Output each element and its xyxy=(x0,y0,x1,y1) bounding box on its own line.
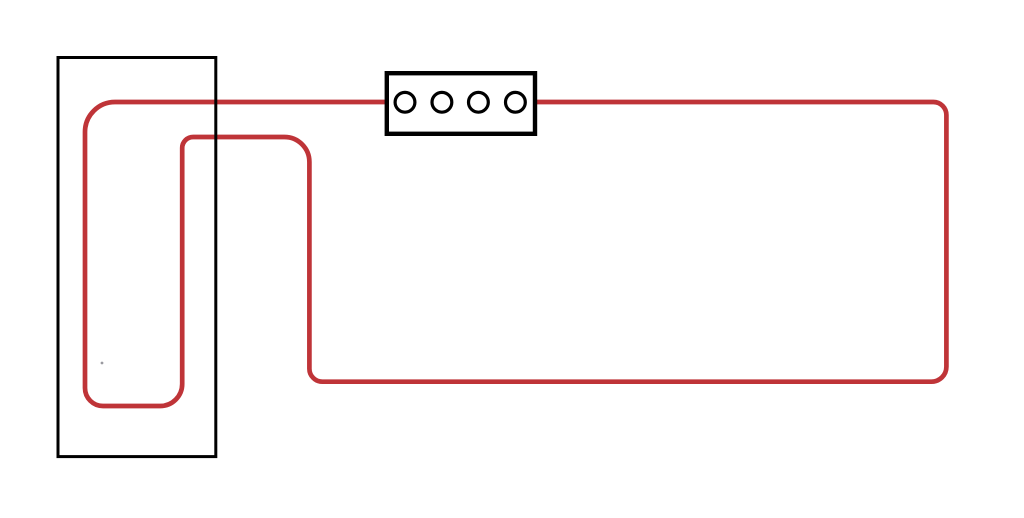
terminal 2 xyxy=(432,92,452,112)
stray mark (faint grey dot inside junction box) xyxy=(101,362,104,365)
wire (red loop: left leg, top run, right leg, bottom run, inner return leg, bottom U) xyxy=(85,102,946,406)
terminal 3 xyxy=(469,92,489,112)
terminal 1 xyxy=(395,92,415,112)
connector J1 (terminal block body, white fill covers wire) xyxy=(387,73,535,134)
junction box (tall black rectangle outline) xyxy=(58,58,216,457)
terminal 4 xyxy=(506,92,526,112)
